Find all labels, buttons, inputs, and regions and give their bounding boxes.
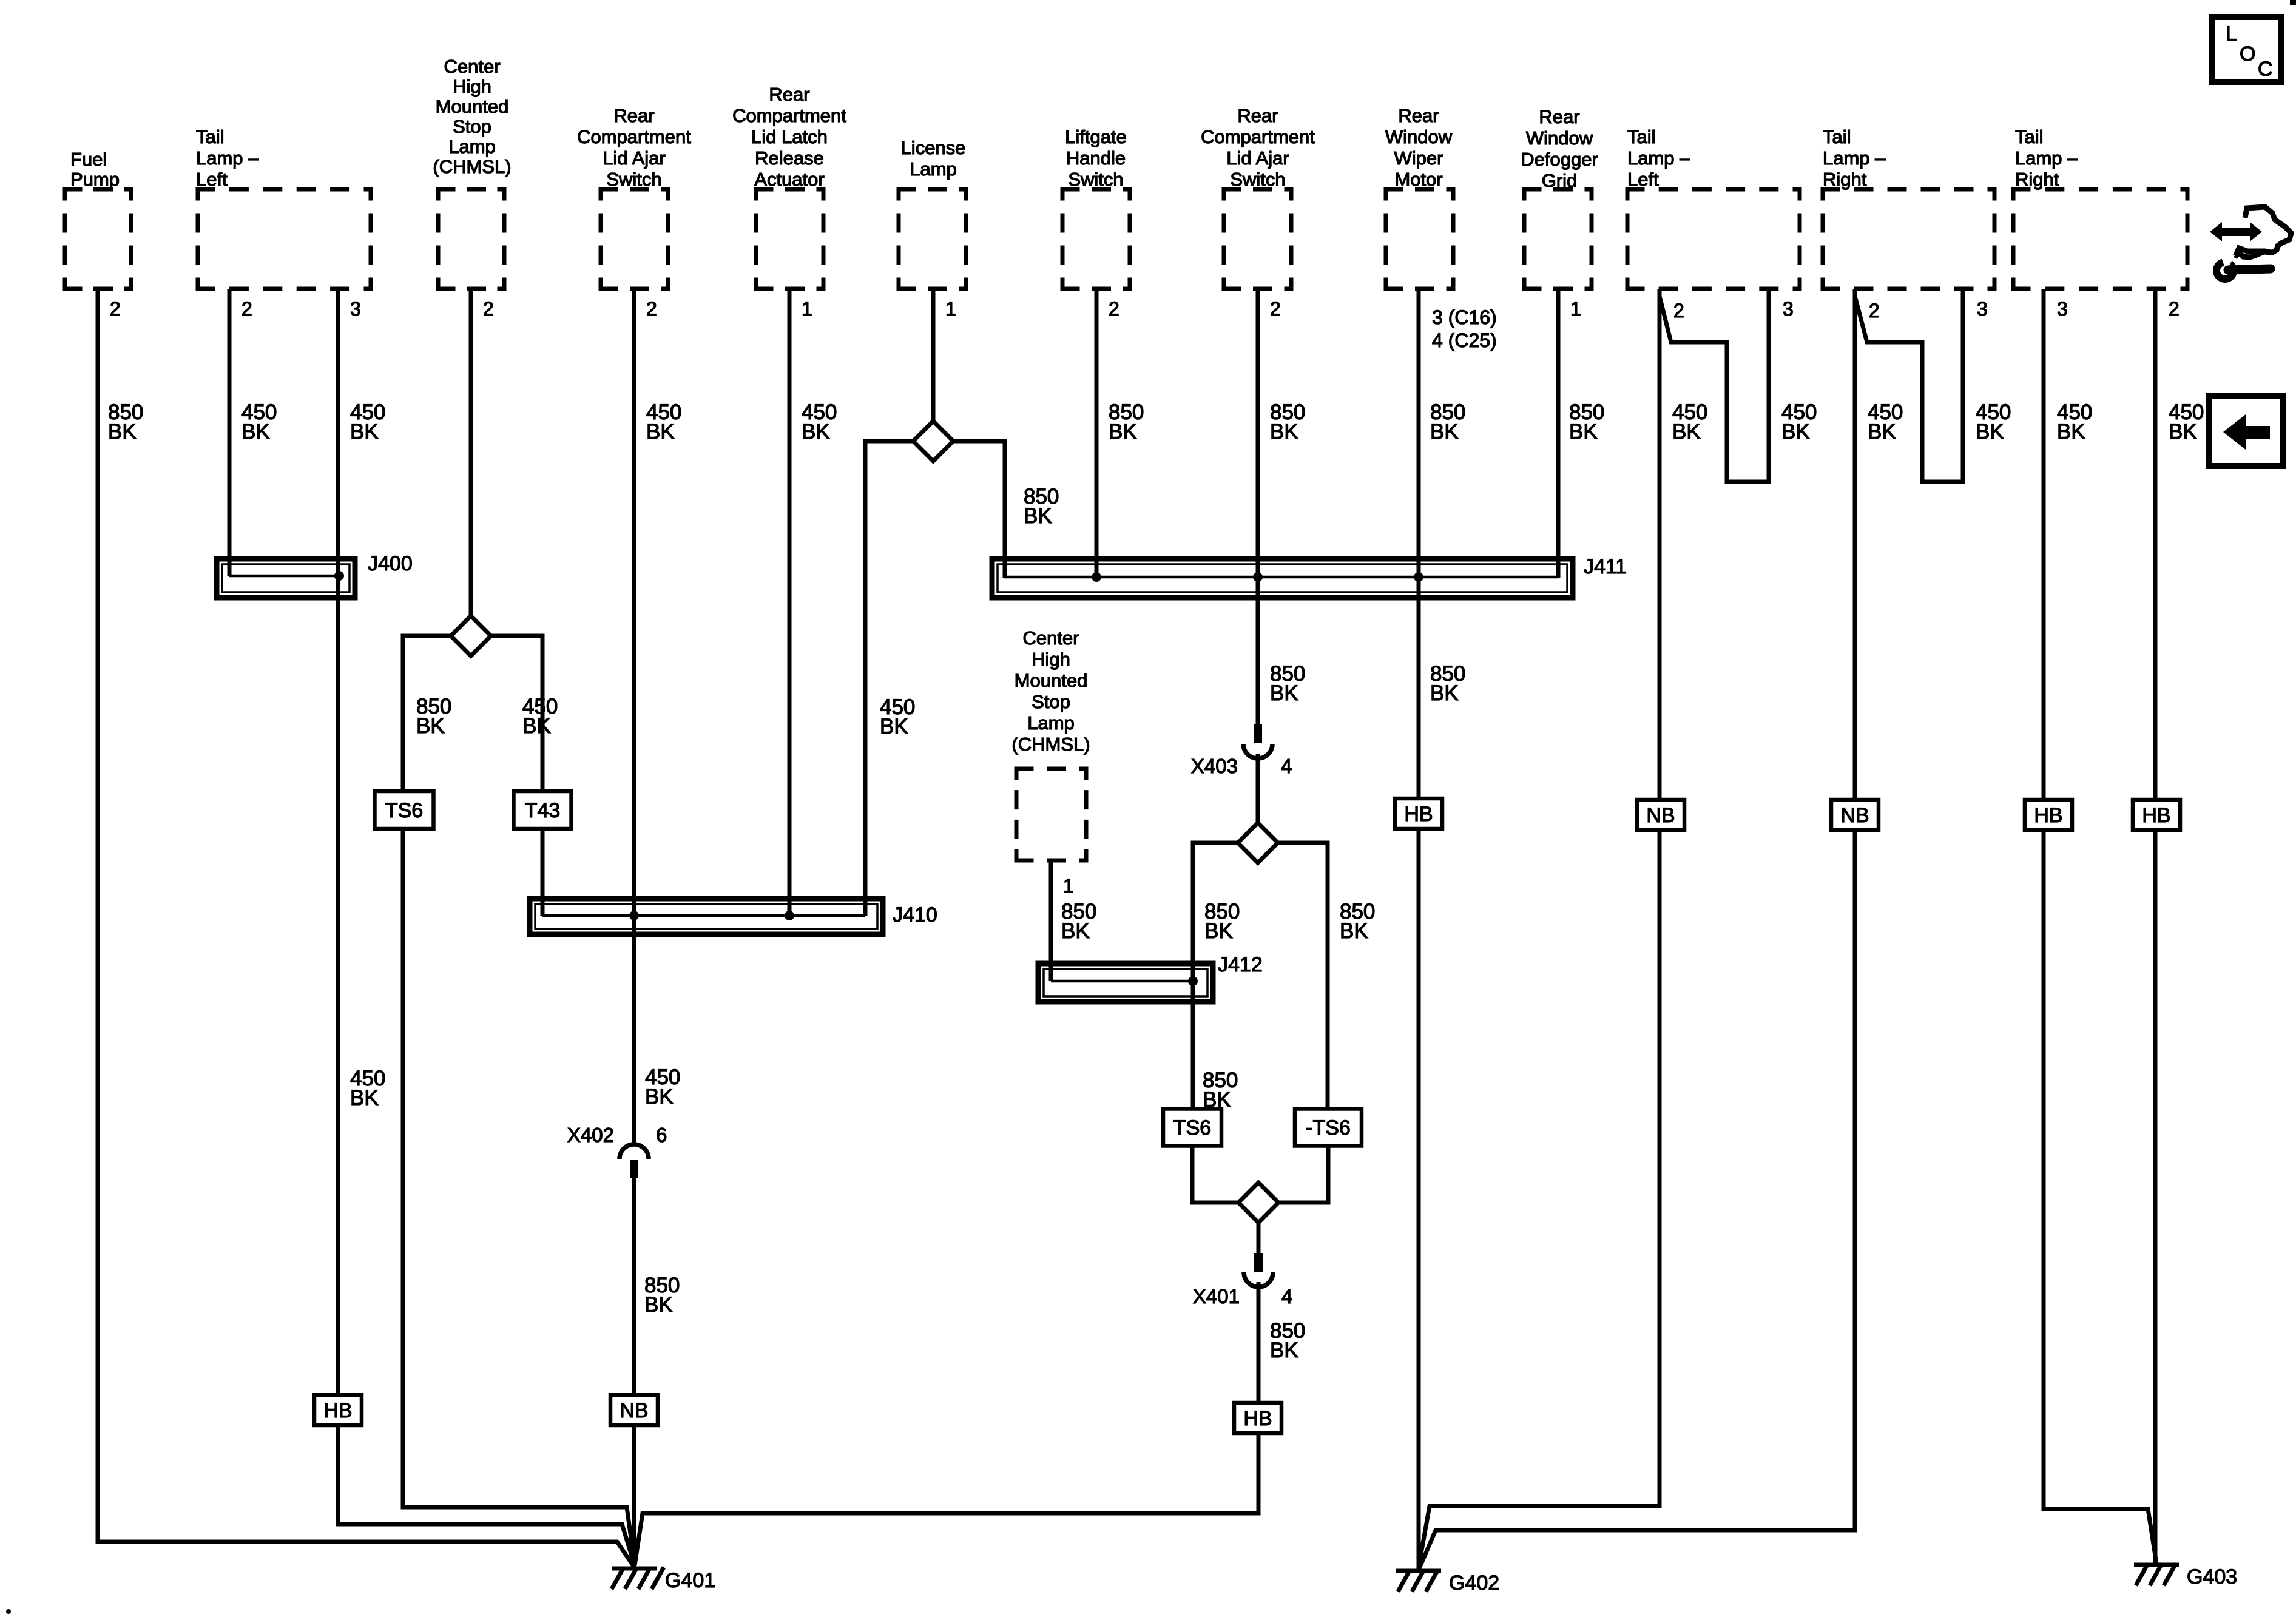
page period mark (6, 1609, 11, 1614)
svg-text:HB: HB (1243, 1407, 1272, 1430)
svg-text:2: 2 (1673, 300, 1684, 322)
wire: Rear Window Wiper Motor through J411 and HB to G402 (1417, 289, 1421, 1571)
connector box: Tail Lamp - Right (1) (1821, 189, 1997, 289)
connector box: Rear Compartment Lid Ajar Switch (2) (1222, 189, 1294, 289)
wire: lower diamond to X401 (1257, 1222, 1261, 1253)
svg-text:-TS6: -TS6 (1306, 1116, 1351, 1139)
junction diamond (X403 split) (1238, 823, 1278, 863)
svg-text:4: 4 (1281, 1285, 1292, 1308)
svg-text:X403: X403 (1191, 755, 1238, 777)
wire: Tail Lamp Right(2) pin 2 to G403 (450 BK) (2153, 289, 2158, 1566)
svg-text:2: 2 (1109, 298, 1119, 320)
wire: CHMSL(1) pin 2 to splice diamond (469, 289, 473, 616)
ground G402 (1396, 1570, 1499, 1595)
wire: Tail Lamp Right(1) pin 2 to G402 (450 BK) (1419, 289, 1855, 1568)
wire: Tail Lamp Right(2) pin 3 to G403 (450 BK) (2044, 289, 2156, 1564)
svg-text:2: 2 (1270, 298, 1281, 320)
harness marker HB (wiper) (1395, 798, 1442, 829)
inline connector X403 (1243, 724, 1272, 758)
svg-text:G401: G401 (665, 1569, 715, 1592)
wire: diamond to TS6 and on to G401 (850 BK) (403, 636, 635, 1565)
svg-text:J410: J410 (893, 903, 937, 927)
ground G401 (612, 1567, 715, 1592)
svg-text:2: 2 (1869, 300, 1880, 322)
svg-text:3: 3 (1783, 298, 1794, 320)
harness marker HB (J400 ground run) (314, 1395, 362, 1425)
harness marker HB (tail right 2 pin2) (2133, 800, 2180, 830)
wire: license diamond left branch to J410 (450 BK) (865, 441, 913, 916)
svg-text:4: 4 (1281, 755, 1292, 777)
svg-text:2: 2 (241, 298, 252, 320)
svg-text:T43: T43 (525, 799, 561, 822)
connector box: Tail Lamp - Left (1) (196, 189, 373, 289)
inline connector X401 (1244, 1253, 1273, 1287)
connector box: CHMSL (1) (436, 189, 507, 289)
page corner mark (2290, 0, 2296, 5)
svg-text:C: C (2258, 58, 2273, 81)
svg-text:6: 6 (656, 1124, 667, 1146)
wire: license diamond right branch to J411 (850 BK) (953, 441, 1005, 578)
inline connector X402 (620, 1144, 649, 1178)
svg-text:1: 1 (945, 298, 956, 320)
svg-text:3: 3 (350, 298, 361, 320)
svg-text:HB: HB (323, 1399, 352, 1422)
connector box: License Lamp (897, 189, 968, 289)
harness marker HB (X401 ground run) (1234, 1403, 1281, 1433)
svg-text:3: 3 (2057, 298, 2068, 320)
junction diamond (CHMSL 1 split) (451, 616, 491, 656)
connector box: Tail Lamp - Left (2) (1626, 189, 1802, 289)
svg-text:G403: G403 (2187, 1565, 2237, 1588)
svg-text:J412: J412 (1218, 953, 1263, 976)
splice pack J411 (992, 559, 1573, 598)
wire: Ajar Switch(2) pin 2 through J411 to X403 (1256, 289, 1260, 724)
harness marker NB (ajar sw 1 ground run) (610, 1395, 658, 1425)
svg-text:NB: NB (620, 1399, 648, 1422)
svg-text:NB: NB (1840, 804, 1869, 827)
wire: TS6 to lower diamond (1192, 1146, 1240, 1203)
wire: Tail Lamp Left(1) pin 2 to J400 (228, 289, 232, 576)
wire: X403 to diamond (1256, 754, 1260, 823)
svg-text:3: 3 (1977, 298, 1988, 320)
splice pack J400 (217, 559, 355, 598)
svg-text:LicenseLamp: LicenseLamp (901, 137, 966, 180)
junction diamond (license lamp split) (913, 421, 953, 461)
connector box: Rear Window Defogger Grid (1522, 189, 1594, 289)
junction diamond (TS6/-TS6 merge) (1238, 1183, 1278, 1223)
wire: Liftgate Handle Switch pin 2 to J411 (1095, 289, 1099, 577)
wire: diamond to T43 and J410 (450 BK) (491, 636, 542, 916)
direction arrow box (2209, 396, 2283, 466)
svg-text:TS6: TS6 (385, 799, 423, 822)
connector box: Fuel Pump (63, 189, 133, 289)
wire: Tail Lamp Left(2) pin 2 to G402 (450 BK) (1419, 289, 1660, 1567)
wire: Rear Window Defogger Grid pin 1 to J411 (1556, 289, 1561, 578)
svg-text:1: 1 (1570, 298, 1581, 320)
tape marker TS6 (upper) (375, 791, 434, 829)
wire: Tail Lamp Left(1) pin 3 through J400 to HB and G401 (338, 289, 635, 1565)
svg-text:G402: G402 (1449, 1571, 1499, 1595)
svg-text:2: 2 (483, 298, 494, 320)
wire: Ajar Switch(1) ground wire below X402 (632, 1177, 636, 1570)
wire: -TS6 to lower diamond (1277, 1146, 1328, 1203)
svg-text:2: 2 (2169, 298, 2180, 320)
wire: Tail Lamp Right(1) pin 3 jog to pin 2 wire (1855, 289, 1963, 482)
wire: License Lamp pin 1 to diamond (931, 289, 936, 422)
wire: CHMSL(2) pin 1 to J412 (1049, 860, 1053, 981)
connector box: Rear Compartment Lid Ajar Switch (1) (599, 189, 670, 289)
connector box: Tail Lamp - Right (2) (2011, 189, 2190, 289)
svg-text:2: 2 (110, 298, 121, 320)
svg-text:J411: J411 (1584, 555, 1627, 578)
connector box: CHMSL (2) (1015, 769, 1089, 860)
ground G403 (2134, 1564, 2237, 1588)
svg-text:1: 1 (802, 298, 812, 320)
svg-text:1: 1 (1063, 875, 1074, 897)
svg-text:HB: HB (2142, 804, 2170, 827)
connector box: Rear Compartment Lid Latch Release Actuator (754, 189, 826, 289)
connector box: Rear Window Wiper Motor (1384, 189, 1456, 289)
LOC reference box (2212, 17, 2281, 82)
svg-text:NB: NB (1646, 804, 1675, 827)
svg-text:J400: J400 (368, 552, 413, 575)
svg-text:O: O (2240, 42, 2255, 66)
svg-text:X401: X401 (1193, 1285, 1240, 1308)
splice pack J412 (1038, 964, 1213, 1002)
svg-text:CenterHighMountedStopLamp(CHMS: CenterHighMountedStopLamp(CHMSL) (433, 56, 511, 177)
wire: Tail Lamp Left(2) pin 3 jog to pin 2 wire (1660, 289, 1769, 482)
wire: X403 diamond right branch to -TS6 (1277, 843, 1328, 1109)
wire: Rear Comp Lid Ajar Switch(1) pin 2 through J410, X402, NB to G401 (upper part) (632, 289, 636, 1143)
harness marker HB (tail right 2 pin3) (2025, 800, 2072, 830)
wire: Fuel Pump pin 2 to G401 (850 BK) (98, 289, 633, 1566)
svg-text:LiftgateHandleSwitch: LiftgateHandleSwitch (1065, 126, 1127, 190)
wire: Lid Latch Release Actuator pin 1 to J410 (788, 289, 792, 916)
svg-text:2: 2 (646, 298, 657, 320)
tape marker T43 (514, 791, 572, 829)
splice pack J410 (530, 899, 883, 934)
tape marker TS6 (lower) (1163, 1109, 1221, 1146)
wire: X403 diamond left branch through J412 to TS6 (1193, 843, 1238, 1109)
harness routing icon (double arrow, outline, wrench) (2210, 207, 2291, 279)
harness marker NB (tail left 2) (1637, 800, 1684, 830)
svg-text:HB: HB (2034, 804, 2062, 827)
connector box: Liftgate Handle Switch (1061, 189, 1132, 289)
svg-text:TS6: TS6 (1173, 1116, 1211, 1139)
svg-text:HB: HB (1404, 803, 1433, 826)
svg-text:L: L (2226, 22, 2237, 46)
tape marker -TS6 (1295, 1109, 1362, 1146)
harness marker NB (tail right 1) (1831, 800, 1879, 830)
wire: X401 through HB to G401 run (635, 1282, 1258, 1565)
svg-text:X402: X402 (567, 1124, 614, 1146)
